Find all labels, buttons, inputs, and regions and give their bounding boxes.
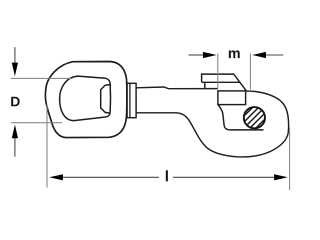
m dimension right arrow line: [265, 54, 283, 56]
l dimension line left segment: [62, 176, 159, 178]
body bar top edge: [136, 87, 218, 89]
D dimension bottom extension line: [11, 122, 62, 124]
l right arrowhead (points right): [274, 174, 288, 180]
l right extension line: [289, 128, 291, 191]
D lower arrowhead: [12, 125, 18, 139]
thumb latch top face: [202, 74, 247, 91]
latch front face left edge: [204, 82, 206, 88]
m left arrowhead (points right): [203, 52, 217, 58]
hook bowl inner edge: [218, 105, 264, 130]
D dimension top extension line: [11, 77, 73, 79]
swivel eye outer outline: [45, 62, 126, 138]
hatching in nose cross-section: [222, 103, 287, 132]
collar inner line: [129, 83, 131, 117]
latch top face bottom edge: [202, 81, 240, 83]
l left extension line: [46, 105, 48, 188]
D upper arrowhead: [12, 63, 18, 77]
swivel eye inner opening: [60, 76, 111, 121]
D dimension upper arrow line: [14, 47, 16, 64]
gate block: [218, 91, 246, 105]
label D: [11, 97, 19, 106]
m dimension left arrow line: [189, 54, 204, 56]
label m: [229, 50, 240, 58]
hook nose cross-section circle: [244, 107, 265, 128]
m right extension line: [249, 54, 251, 90]
D dimension lower arrow line: [14, 137, 16, 157]
m left extension line: [217, 54, 219, 89]
l dimension line right segment: [173, 176, 275, 178]
m right arrowhead (points left): [252, 52, 266, 58]
swivel collar: [127, 83, 136, 117]
bolt-end tab inside eye opening: [101, 85, 110, 114]
label l: [166, 170, 168, 181]
body bar bottom edge and hook outer outline: [136, 91, 289, 157]
l left arrowhead (points left): [49, 174, 63, 180]
